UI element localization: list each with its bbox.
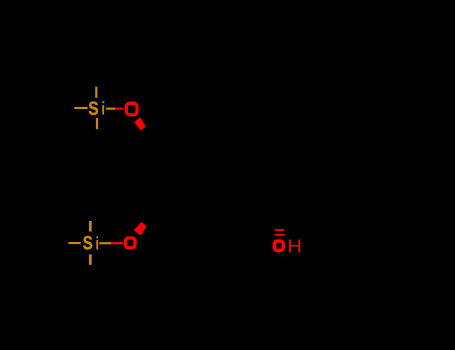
bond: Si2 methyl up [89, 221, 92, 232]
wedge bond O1-C (red half) [134, 117, 145, 130]
atom label O3 (hydroxyl O) [274, 241, 283, 251]
wedge bond O2-C (red half) [134, 222, 147, 236]
bond Si1-O1 (Si half) [106, 108, 115, 110]
svg-text:S: S [88, 97, 99, 119]
bond Si2-O2 (Si half) [99, 242, 111, 244]
svg-text:H: H [288, 237, 302, 257]
atom label O2 [126, 238, 135, 248]
hash dash 2 of C-OH hashed bond [275, 234, 285, 236]
bond: Si1 methyl left [74, 107, 87, 109]
bond: Si1 methyl down [96, 118, 98, 129]
bond: Si2 methyl down [89, 254, 92, 265]
bond: Si1 methyl up [95, 87, 97, 98]
atom label Si1: letter i stem [102, 105, 104, 114]
atom label O1 [126, 103, 137, 115]
atom label Si2: letter i stem [96, 240, 98, 250]
hash dash 1 of C-OH hashed bond [275, 229, 284, 231]
bond Si2-O2 (O half) [111, 242, 123, 244]
atom label Si2: letter i dot [96, 236, 98, 238]
bond: Si2 methyl left [68, 242, 80, 244]
svg-text:S: S [83, 232, 93, 254]
bond Si1-O1 (O half) [115, 108, 123, 110]
atom label Si1: letter i dot [102, 101, 104, 103]
